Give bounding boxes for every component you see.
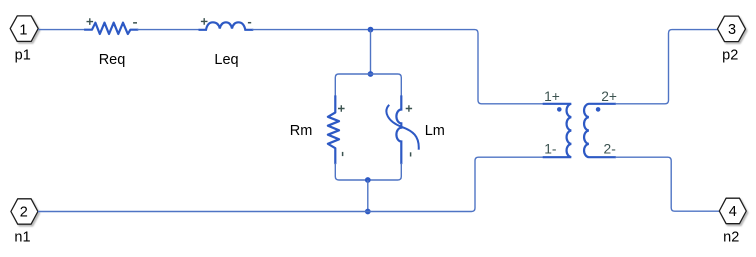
polarity mark - (Rm) [342,152,344,156]
svg-text:1-: 1- [544,142,556,157]
wire node C down to bottom rail [367,180,369,212]
wire Req to Leq [137,29,199,31]
svg-text:p1: p1 [15,48,31,64]
svg-text:n2: n2 [723,230,739,246]
transformer winding 1 (primary) [544,89,572,157]
wire Lm bottom to box bottom bar [400,163,402,177]
port p2 (pin 3) [718,16,746,63]
svg-text:Req: Req [99,52,126,68]
svg-text:2-: 2- [604,142,616,157]
wire box left side down to Rm [334,78,336,98]
wire shunt box bottom bar [335,177,401,181]
inductor Leq [200,18,253,68]
svg-text:Leq: Leq [214,52,238,68]
port p1 (pin 1) [10,16,38,64]
polarity mark - (Req) [133,22,137,24]
node D (junction on bottom rail) [365,209,371,215]
svg-text:3: 3 [728,22,736,38]
node B (junction at shunt box top) [368,71,374,77]
wire box right side down to Lm [400,78,402,98]
polarity mark - (Lm) [410,152,412,156]
wire transformer terminal 2+ to port p2 [615,30,718,104]
svg-text:2+: 2+ [601,89,617,104]
svg-text:1: 1 [19,23,27,39]
port n2 (pin 4) [719,198,746,245]
wire shunt box top bar [335,74,401,78]
svg-text:n1: n1 [14,230,30,246]
resistor Req [85,18,137,68]
polarity mark + (Req) [87,18,94,25]
node A (junction on top rail) [368,27,374,33]
svg-text:2: 2 [20,204,28,220]
polarity dot winding 2 [596,107,601,112]
polarity mark + (Lm) [406,105,412,111]
polarity mark - (Leq) [248,22,251,24]
port n1 (pin 2) [11,199,38,246]
inductor Lm (nonlinear, with saturation curve) [386,97,444,164]
wire transformer terminal 2- to port n2 [615,157,720,211]
polarity mark + (Leq) [201,18,208,25]
wire port1 to Req [38,29,85,31]
polarity mark + (Rm) [338,105,345,112]
svg-text:1+: 1+ [544,89,560,104]
svg-text:Lm: Lm [425,123,445,139]
svg-text:p2: p2 [722,47,738,63]
polarity dot winding 1 [557,107,562,112]
wire Rm bottom to box bottom bar [334,163,336,177]
svg-text:Rm: Rm [290,123,313,139]
wire node A down to shunt branch [370,30,372,74]
wire Leq to transformer terminal 1+ [252,30,544,104]
resistor Rm [290,97,345,164]
wire bottom rail port2 to transformer terminal 1- [38,157,544,211]
node C (junction at shunt box bottom) [365,177,371,183]
svg-text:4: 4 [729,204,737,220]
transformer winding 2 (secondary) [584,89,617,157]
